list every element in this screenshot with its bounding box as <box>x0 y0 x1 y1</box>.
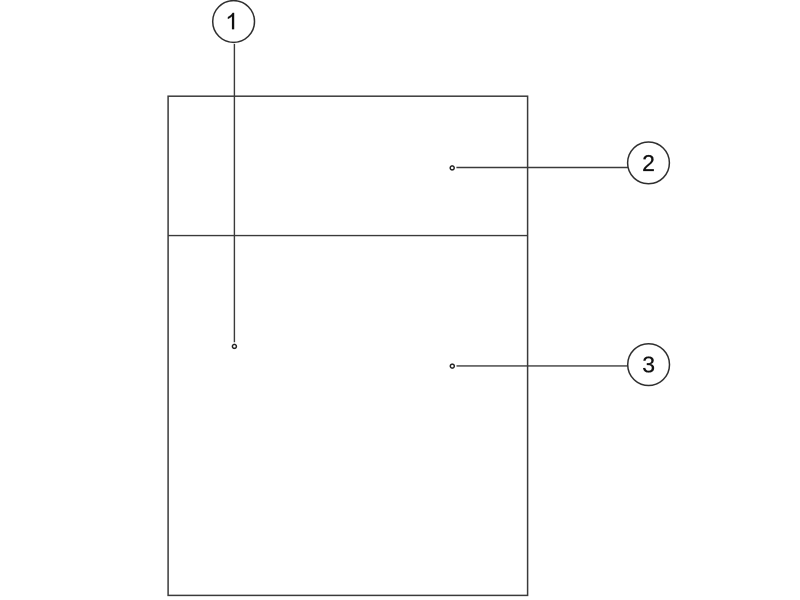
svg-text:3: 3 <box>642 352 655 378</box>
svg-text:2: 2 <box>642 150 655 176</box>
